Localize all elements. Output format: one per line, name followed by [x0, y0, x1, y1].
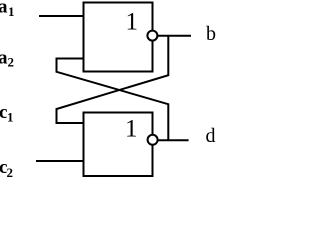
svg-text:2: 2 [7, 165, 14, 180]
svg-text:d: d [206, 125, 216, 147]
wire input c2 to gate U2 [36, 160, 84, 162]
svg-text:1: 1 [8, 4, 15, 19]
wire output b from gate U1 [158, 35, 191, 37]
wire feedback from gate U2 output to a2 input of U1 (crossing diagonal) [57, 59, 169, 141]
svg-text:1: 1 [7, 110, 14, 125]
wire output d from gate U2 [158, 139, 189, 141]
gate U1 (top NOR, IEC symbol) body [84, 3, 153, 72]
svg-text:b: b [206, 23, 216, 45]
svg-text:2: 2 [8, 55, 15, 70]
gate U2 (bottom NOR, IEC symbol) body [84, 113, 153, 177]
inversion bubble at gate U1 output [147, 31, 157, 41]
inversion bubble at gate U2 output [148, 135, 158, 145]
svg-text:a: a [0, 0, 8, 18]
wire feedback from gate U1 output to c1 input of U2 (crossing diagonal) [57, 36, 169, 123]
wire input a1 to gate U1 [39, 15, 84, 17]
svg-text:1: 1 [125, 116, 138, 143]
svg-text:1: 1 [126, 9, 139, 36]
